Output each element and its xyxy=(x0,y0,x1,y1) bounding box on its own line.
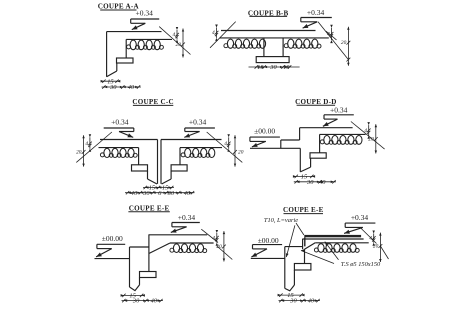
svg-text:±00.00: ±00.00 xyxy=(258,236,279,245)
svg-text:20: 20 xyxy=(76,149,82,155)
svg-text:30: 30 xyxy=(289,298,297,305)
svg-text:20: 20 xyxy=(341,40,347,46)
svg-text:T10, L=varie: T10, L=varie xyxy=(264,217,298,224)
svg-text:±00.00: ±00.00 xyxy=(102,234,123,243)
svg-text:+0.34: +0.34 xyxy=(351,213,369,222)
svg-text:40: 40 xyxy=(131,190,138,197)
svg-text:±00.00: ±00.00 xyxy=(254,127,275,136)
svg-text:30: 30 xyxy=(109,84,117,91)
svg-text:30: 30 xyxy=(132,298,140,305)
svg-text:4: 4 xyxy=(85,141,88,147)
svg-text:40: 40 xyxy=(308,298,315,305)
svg-text:4: 4 xyxy=(173,32,176,38)
svg-text:10: 10 xyxy=(257,64,264,71)
svg-text:30: 30 xyxy=(306,179,314,186)
svg-text:20: 20 xyxy=(216,244,222,250)
svg-text:20: 20 xyxy=(373,244,379,250)
svg-text:+0.34: +0.34 xyxy=(178,213,196,222)
svg-text:4: 4 xyxy=(212,235,215,241)
svg-text:T.S ø5 150x150: T.S ø5 150x150 xyxy=(341,261,381,268)
svg-text:COUPE E-E: COUPE E-E xyxy=(283,206,324,214)
svg-text:4: 4 xyxy=(224,141,227,147)
svg-text:10: 10 xyxy=(283,64,290,71)
svg-text:15: 15 xyxy=(149,185,155,192)
svg-text:COUPE E-E: COUPE E-E xyxy=(129,204,170,212)
svg-text:30: 30 xyxy=(269,64,277,71)
svg-text:4: 4 xyxy=(364,128,367,134)
svg-text:+0.34: +0.34 xyxy=(111,117,129,126)
svg-text:4: 4 xyxy=(369,236,372,242)
svg-text:30: 30 xyxy=(142,190,150,197)
svg-text:30: 30 xyxy=(167,190,175,197)
svg-text:+0.34: +0.34 xyxy=(136,9,154,18)
svg-text:20: 20 xyxy=(176,42,182,48)
svg-text:4: 4 xyxy=(327,31,330,37)
svg-text:+0.34: +0.34 xyxy=(189,117,207,126)
svg-text:COUPE C-C: COUPE C-C xyxy=(132,98,173,106)
svg-text:40: 40 xyxy=(184,190,191,197)
svg-text:40: 40 xyxy=(128,84,135,91)
svg-text:+0.34: +0.34 xyxy=(330,105,348,114)
svg-text:40: 40 xyxy=(319,179,326,186)
svg-text:4: 4 xyxy=(212,30,215,36)
svg-text:+0.34: +0.34 xyxy=(307,8,325,17)
svg-text:20: 20 xyxy=(238,149,244,155)
svg-text:40: 40 xyxy=(151,298,158,305)
svg-text:20: 20 xyxy=(368,137,374,143)
